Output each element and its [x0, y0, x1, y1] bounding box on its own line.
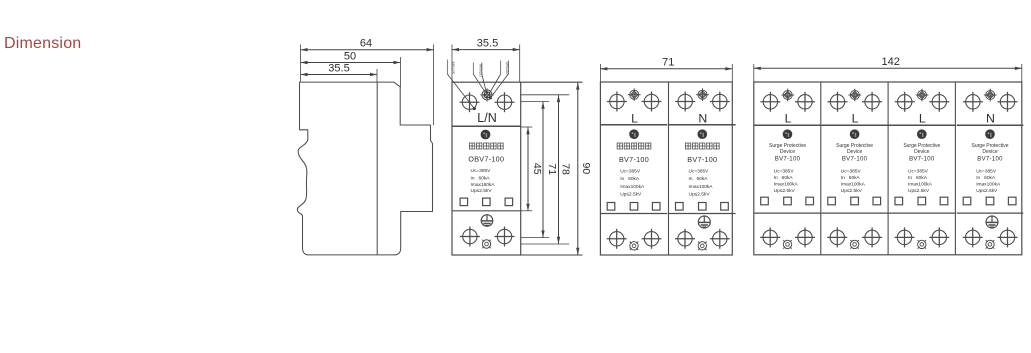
module L: divider	[601, 124, 668, 126]
module L: indicator windows	[761, 197, 814, 205]
module L: phase label L	[919, 111, 926, 125]
side view: dim 50	[301, 50, 401, 64]
single module: chinese product name	[469, 143, 503, 149]
module L: model BV7-100	[619, 155, 649, 164]
svg-text:In 60kA: In 60kA	[774, 175, 794, 181]
single module: bottom terminal screws	[460, 227, 515, 247]
svg-text:In 60kA: In 60kA	[689, 176, 709, 182]
module L: bottom terminal screws	[607, 229, 662, 249]
svg-text:Device: Device	[780, 149, 796, 155]
single module: feature extension lines right	[521, 82, 583, 255]
four-module unit: outline	[754, 82, 1022, 255]
four-module unit: dim 142	[754, 56, 1022, 70]
side view: dim 35.5	[301, 62, 377, 76]
svg-text:Device: Device	[982, 149, 998, 155]
svg-text:BV7-100: BV7-100	[909, 157, 935, 163]
svg-text:In 60kA: In 60kA	[471, 176, 491, 182]
svg-text:Uc=385V: Uc=385V	[841, 169, 862, 175]
module L: indicator windows	[895, 197, 948, 205]
module L: brand logo	[629, 129, 639, 139]
svg-text:Imax160kA: Imax160kA	[471, 182, 496, 188]
module N: divider	[669, 124, 736, 126]
single module: earth terminal symbol	[481, 215, 493, 227]
side view: extension lines	[301, 45, 434, 126]
module L: chinese product name	[617, 143, 651, 149]
module N: model BV7-100	[687, 155, 717, 164]
svg-text:In 60kA: In 60kA	[620, 176, 640, 182]
svg-text:64: 64	[360, 38, 372, 50]
module L: top clamp screw	[781, 89, 794, 102]
module N: bottom terminal screws	[675, 229, 730, 249]
module N: bottom terminal screws	[963, 227, 1018, 247]
side view: enclosure profile	[297, 82, 432, 255]
two-module unit: outline	[600, 82, 732, 255]
module L: divider above bottom terminals	[754, 212, 821, 214]
module L: model BV7-100	[909, 157, 935, 163]
module L: name Surge Protective Device	[769, 143, 806, 155]
svg-text:Uc=385V: Uc=385V	[620, 169, 641, 175]
svg-text:50: 50	[344, 50, 356, 62]
svg-text:L: L	[631, 111, 638, 125]
svg-text:Up≤2.5kV: Up≤2.5kV	[908, 188, 930, 194]
module L: divider above bottom terminals	[821, 212, 888, 214]
four-module unit: dim extension lines	[754, 64, 1022, 82]
svg-text:45: 45	[531, 163, 543, 175]
module L: top terminal screws	[607, 92, 662, 112]
module N: indicator windows	[963, 197, 1016, 205]
module L: bottom clamp screw	[783, 240, 792, 249]
single module: divider below L/N	[452, 125, 521, 127]
svg-text:Dimension: Dimension	[4, 35, 81, 52]
module L: top terminal screws	[895, 92, 950, 112]
module L: phase label L	[852, 111, 859, 125]
svg-text:Imax100kA: Imax100kA	[976, 181, 1001, 187]
svg-text:71: 71	[662, 57, 674, 69]
module L: bottom clamp screw	[918, 240, 927, 249]
svg-text:In 60kA: In 60kA	[908, 175, 928, 181]
svg-text:Up≤2.5kV: Up≤2.5kV	[774, 188, 796, 194]
svg-text:BV7-100: BV7-100	[842, 157, 868, 163]
module N: bottom clamp screw	[986, 240, 995, 249]
svg-text:In 60kA: In 60kA	[841, 175, 861, 181]
module N: top clamp screw	[984, 89, 997, 102]
module N: divider	[957, 124, 1024, 126]
svg-text:L: L	[852, 111, 859, 125]
single module: center clamp screw	[480, 88, 493, 101]
svg-text:Uc=385V: Uc=385V	[689, 169, 710, 175]
single module: top terminal screws	[460, 92, 515, 112]
module L: brand logo	[850, 129, 860, 139]
module N: earth terminal symbol	[698, 216, 710, 228]
two-module unit: dim 71	[600, 57, 732, 71]
single module: model OBV7-100	[468, 155, 504, 164]
side view: dim 64	[301, 38, 434, 52]
module L: ratings text	[841, 169, 866, 194]
module N: chinese product name	[685, 143, 719, 149]
module L: indicator windows	[828, 197, 881, 205]
svg-text:Imax100kA: Imax100kA	[689, 184, 714, 190]
module L: ratings text	[908, 169, 933, 194]
module N: phase label N	[698, 111, 707, 125]
svg-text:Uc=385V: Uc=385V	[908, 169, 929, 175]
svg-text:90: 90	[580, 163, 592, 175]
svg-text:Uc=385V: Uc=385V	[976, 169, 997, 175]
svg-text:BV7-100: BV7-100	[687, 155, 717, 164]
svg-text:M6x20: M6x20	[505, 62, 510, 75]
svg-text:Imax100kA: Imax100kA	[620, 184, 645, 190]
module N: divider above bottom terminals	[669, 213, 736, 215]
module L: top clamp screw	[628, 88, 641, 101]
module L: phase label L	[785, 111, 792, 125]
svg-text:78: 78	[560, 163, 572, 175]
module L: divider above bottom terminals	[889, 212, 956, 214]
svg-text:OBV7-100: OBV7-100	[468, 155, 504, 164]
module L: top clamp screw	[916, 89, 929, 102]
four-module unit: partitions	[821, 82, 956, 255]
module L: top terminal screws	[760, 92, 815, 112]
svg-text:35.5: 35.5	[477, 37, 498, 49]
module N: model BV7-100	[977, 157, 1003, 163]
module N: top clamp screw	[696, 88, 709, 101]
svg-text:Imax100kA: Imax100kA	[841, 181, 866, 187]
svg-text:Device: Device	[847, 149, 863, 155]
svg-text:Uc=385V: Uc=385V	[774, 169, 795, 175]
single module: top callout labels	[447, 60, 510, 111]
svg-text:Up≤2.5kV: Up≤2.5kV	[471, 188, 493, 194]
single module: brand logo	[481, 130, 491, 140]
svg-text:Imax100kA: Imax100kA	[908, 181, 933, 187]
module L: model BV7-100	[842, 157, 868, 163]
svg-text:BV7-100: BV7-100	[619, 155, 649, 164]
svg-text:BV7-100: BV7-100	[775, 157, 801, 163]
svg-text:N: N	[698, 111, 707, 125]
module L: model BV7-100	[775, 157, 801, 163]
module L: bottom terminal screws	[760, 227, 815, 247]
module N: top terminal screws	[963, 92, 1018, 112]
module N: bottom clamp screw	[698, 242, 707, 251]
module N: brand logo	[698, 129, 708, 139]
module L: divider above bottom terminals	[601, 213, 668, 215]
module N: name Surge Protective Device	[972, 143, 1009, 155]
module L: divider	[889, 124, 956, 126]
single module: ratings text	[471, 168, 496, 194]
single module: dim 78	[557, 95, 572, 244]
module L: phase label L	[631, 111, 638, 125]
module N: earth terminal symbol	[986, 216, 998, 228]
svg-text:N: N	[986, 111, 995, 125]
module L: top terminal screws	[828, 92, 883, 112]
single module: dim 90	[576, 83, 592, 255]
module N: top terminal screws	[675, 92, 730, 112]
module L: bottom terminal screws	[827, 227, 882, 247]
module L: top clamp screw	[848, 89, 861, 102]
module L: name Surge Protective Device	[903, 143, 940, 155]
module L: brand logo	[783, 129, 793, 139]
single module: divider above bottom terminals	[452, 210, 521, 212]
svg-text:Uc=385V: Uc=385V	[471, 168, 492, 174]
module N: indicator windows	[676, 203, 729, 211]
module N: divider above bottom terminals	[957, 212, 1024, 214]
svg-text:M6x20: M6x20	[479, 64, 484, 77]
module L: name Surge Protective Device	[836, 143, 873, 155]
module L: ratings text	[620, 169, 645, 198]
single module: indicator windows	[460, 198, 512, 206]
svg-text:Device: Device	[914, 149, 930, 155]
svg-text:M6x25: M6x25	[451, 62, 456, 75]
module L: divider	[754, 124, 821, 126]
svg-text:L: L	[919, 111, 926, 125]
module L: indicator windows	[607, 203, 660, 211]
svg-text:In 60kA: In 60kA	[976, 175, 996, 181]
single module: bottom clamp screw	[482, 240, 491, 249]
svg-text:142: 142	[882, 56, 900, 68]
two-module unit: dim extension lines	[600, 64, 732, 82]
module L: divider	[821, 124, 888, 126]
module N: phase label N	[986, 111, 995, 125]
svg-text:L: L	[785, 111, 792, 125]
single module: dim 35.5	[452, 37, 520, 51]
svg-text:Up≤2.5kV: Up≤2.5kV	[689, 192, 711, 198]
single module: dim 71	[541, 102, 558, 238]
svg-text:Up≤2.5kV: Up≤2.5kV	[976, 188, 998, 194]
module L: brand logo	[917, 129, 927, 139]
svg-text:BV7-100: BV7-100	[977, 157, 1003, 163]
single module: L/N label	[477, 111, 496, 125]
svg-text:L/N: L/N	[477, 111, 496, 125]
module L: ratings text	[774, 169, 799, 194]
svg-text:71: 71	[546, 163, 558, 175]
two-module unit: center partition	[668, 82, 670, 255]
module L: bottom terminal screws	[895, 227, 950, 247]
module N: ratings text	[689, 169, 714, 198]
module L: bottom clamp screw	[850, 240, 859, 249]
single module: outline	[452, 82, 521, 255]
svg-text:35.5: 35.5	[328, 62, 349, 74]
module N: brand logo	[985, 129, 995, 139]
single module: dim extension lines	[452, 45, 520, 83]
svg-text:Imax100kA: Imax100kA	[774, 181, 799, 187]
module L: bottom clamp screw	[630, 242, 639, 251]
single module: dim 45	[526, 127, 543, 211]
module N: ratings text	[976, 169, 1001, 194]
svg-text:Up≤2.5kV: Up≤2.5kV	[841, 188, 863, 194]
svg-text:Up≤2.5kV: Up≤2.5kV	[620, 192, 642, 198]
side view: front-face line (35.5)	[376, 82, 378, 255]
